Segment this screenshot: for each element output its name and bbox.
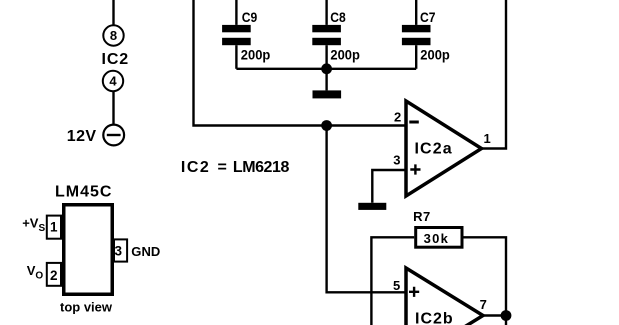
svg-text:200p: 200p	[330, 48, 360, 63]
svg-text:C7: C7	[420, 10, 436, 25]
svg-text:200p: 200p	[241, 48, 270, 63]
svg-text:C9: C9	[242, 10, 258, 25]
svg-text:R7: R7	[413, 209, 431, 224]
svg-text:12V: 12V	[67, 128, 97, 145]
svg-text:IC2: IC2	[102, 51, 130, 68]
svg-text:3: 3	[115, 243, 123, 258]
svg-text:LM45C: LM45C	[55, 184, 112, 201]
svg-text:5: 5	[393, 278, 400, 293]
svg-text:7: 7	[480, 297, 487, 312]
svg-text:8: 8	[110, 28, 117, 43]
svg-text:30k: 30k	[424, 231, 449, 246]
svg-text:1: 1	[484, 131, 491, 146]
svg-text:GND: GND	[131, 244, 160, 259]
svg-text:IC2a: IC2a	[415, 140, 453, 157]
svg-text:IC2=LM6218: IC2=LM6218	[181, 159, 290, 176]
svg-text:200p: 200p	[420, 48, 450, 63]
svg-text:C8: C8	[330, 10, 346, 25]
svg-text:3: 3	[393, 153, 400, 168]
svg-text:2: 2	[394, 109, 401, 124]
svg-text:2: 2	[50, 268, 58, 283]
svg-text:1: 1	[50, 220, 58, 235]
svg-text:4: 4	[109, 74, 117, 89]
svg-text:IC2b: IC2b	[415, 310, 454, 325]
svg-text:top view: top view	[60, 299, 113, 314]
